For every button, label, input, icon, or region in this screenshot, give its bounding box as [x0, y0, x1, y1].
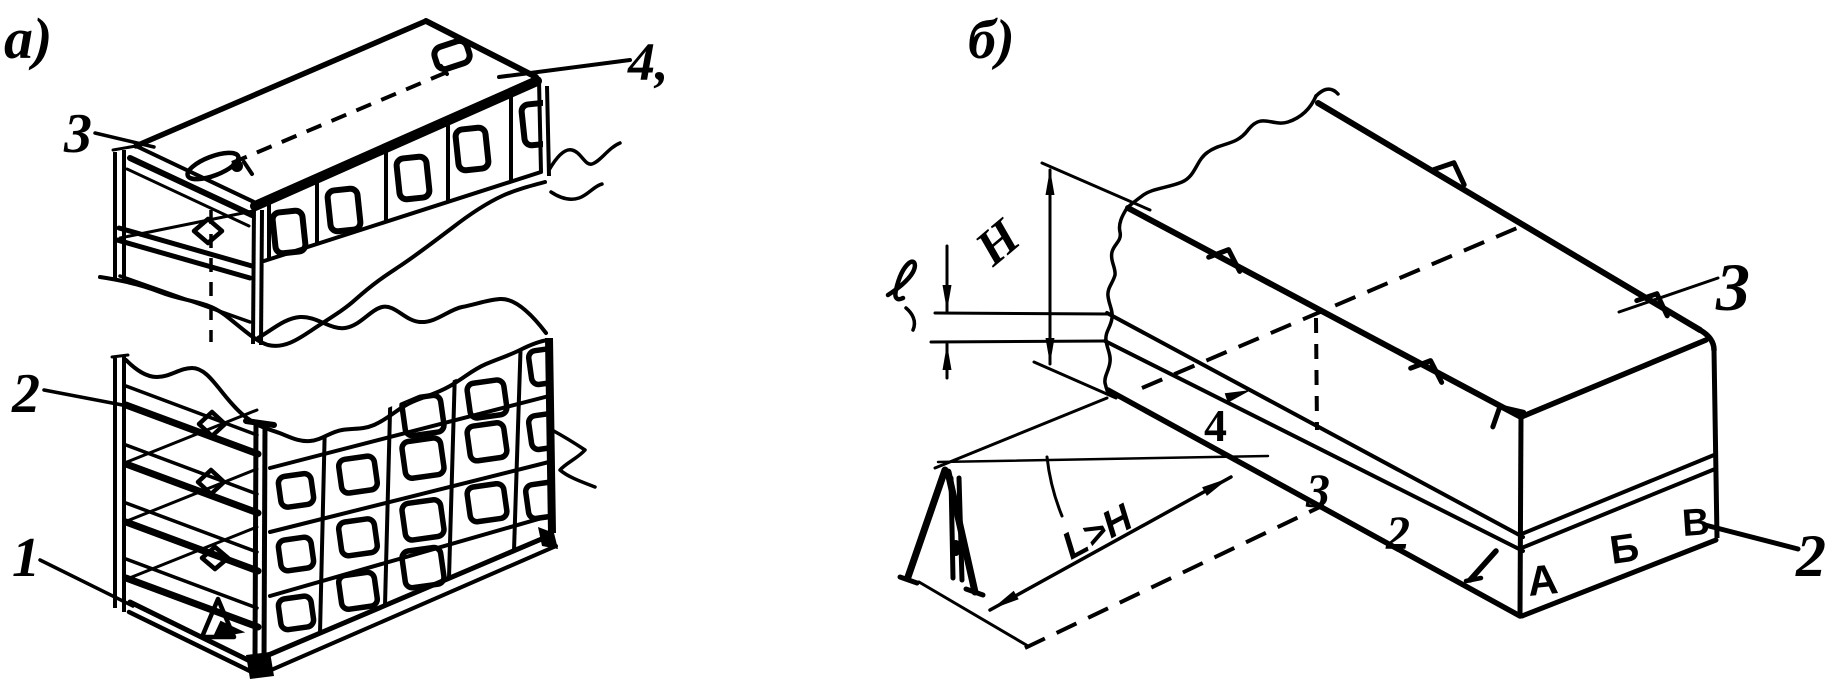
svg-text:4: 4	[1204, 400, 1227, 451]
svg-text:а): а)	[4, 6, 52, 71]
svg-text:2: 2	[1385, 507, 1410, 560]
svg-text:3: 3	[1305, 465, 1330, 518]
svg-text:2: 2	[1795, 523, 1826, 589]
svg-text:б): б)	[968, 9, 1015, 71]
svg-text:4,: 4,	[627, 32, 669, 92]
svg-text:2: 2	[11, 363, 40, 425]
svg-text:В: В	[1681, 501, 1711, 545]
svg-text:Б: Б	[1607, 525, 1642, 573]
svg-text:3: 3	[1715, 249, 1750, 325]
svg-text:1: 1	[12, 527, 40, 589]
svg-text:А: А	[1525, 555, 1560, 605]
svg-text:3: 3	[63, 103, 92, 165]
